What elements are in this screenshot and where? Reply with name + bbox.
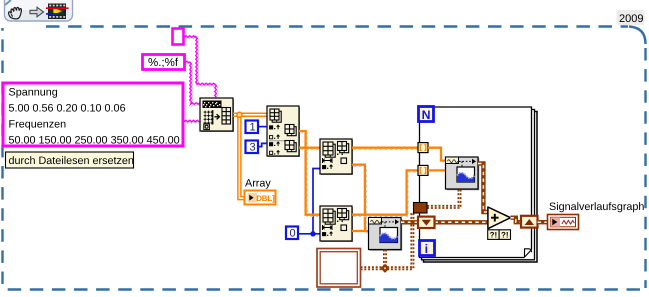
waveform wire: shift register to Add [435, 220, 488, 224]
string wire: format to node [187, 63, 200, 106]
shift register left terminal (down arrow) [418, 217, 435, 228]
solid border tunnel [414, 203, 428, 214]
loop iteration terminal i [420, 241, 435, 257]
for loop count terminal N [419, 107, 434, 122]
svg-text:1: 1 [250, 122, 256, 134]
svg-text:3: 3 [250, 142, 256, 154]
svg-text:50.00 150.00 250.00 350.00 450: 50.00 150.00 250.00 350.00 450.00 [9, 135, 180, 147]
waveform graph indicator [548, 215, 579, 230]
svg-text:N: N [422, 108, 431, 122]
1D wire stub: subset2 out2 [352, 230, 365, 232]
1D wire: subset2 out1 to loop tunnel T2 [354, 172, 420, 216]
svg-text:5.00 0.56 0.20 0.10 0.06: 5.00 0.56 0.20 0.10 0.06 [9, 103, 126, 115]
svg-text:Array: Array [245, 178, 271, 190]
numeric constant 0 [286, 227, 298, 240]
1D wire: subset1 out2 to express VI 2 input [354, 167, 371, 233]
wire 0 to subset index inputs [298, 233, 320, 235]
svg-text:Spannung: Spannung [9, 87, 58, 99]
1D wire: index out1 to subset2 [301, 133, 322, 217]
LabVIEW run/vi film icon [46, 4, 69, 20]
for loop frame (stacked) outer line 3 [424, 112, 538, 263]
express VI: Sine Waveform (outside loop) [369, 218, 403, 251]
1D wire: subset1 out1 to loop tunnel T1 [354, 149, 420, 151]
tunnel T1 (auto-indexing) [418, 143, 428, 153]
wire junction [237, 112, 242, 117]
format string constant %.;%f [143, 55, 185, 70]
1D wire: index out2 to subset1 [301, 149, 322, 151]
empty waveform array constant [317, 249, 361, 288]
svg-text:Signalverlaufsgraph: Signalverlaufsgraph [549, 201, 644, 213]
empty string constant (delimiter) [173, 29, 184, 45]
string wire: delimiter to node top [186, 37, 218, 97]
floating tools palette [5, 0, 73, 21]
blue wire junction dot [310, 231, 315, 236]
LabVIEW version tag 2009 [617, 10, 645, 25]
shift register right terminal / output tunnel (up arrow) [521, 216, 538, 228]
numeric constant 1 [246, 121, 259, 134]
svg-text:?!: ?! [501, 231, 509, 240]
Add function [488, 207, 511, 229]
express VI: Sine Waveform (inside loop) [446, 157, 480, 190]
svg-text:0: 0 [290, 228, 296, 240]
svg-text:durch Dateilesen ersetzen: durch Dateilesen ersetzen [9, 155, 134, 167]
2D array wire: node output to junction [233, 112, 267, 114]
svg-text:Frequenzen: Frequenzen [9, 119, 67, 131]
waveform wire: express VI 2 out to shift register [401, 220, 418, 224]
wire 3 to index [258, 143, 267, 146]
for loop main frame with folded corner [420, 107, 532, 258]
arrow tool icon [30, 7, 44, 17]
tunnel T2 (auto-indexing) [418, 165, 428, 175]
waveform wire: express VI 1 out to Add [478, 164, 488, 213]
wire junction diamond [380, 264, 389, 273]
array constant [DBL] [245, 191, 276, 205]
Spreadsheet String To Array node [200, 98, 234, 132]
1D wire: T2 to express VI 1 [428, 169, 446, 171]
waveform wire: tunnel to graph indicator [538, 220, 548, 224]
1D wire: T1 to express VI 1 [428, 148, 446, 161]
pan hand tool icon [9, 7, 22, 19]
error wire: express VI 1 bottom to border tunnel [427, 190, 461, 209]
Index Array node [267, 106, 300, 157]
waveform wire: Add to output tunnel [511, 218, 522, 223]
for loop frame line 2 [422, 110, 535, 260]
svg-text:2009: 2009 [619, 13, 643, 25]
string wire: data to node [184, 122, 199, 124]
probe markers ?! ?! [488, 230, 511, 240]
error wire: express VI 2 bottom / empty array / border tunnel [385, 250, 387, 269]
Array Subset node 2 [320, 206, 353, 242]
svg-text:%.;%f: %.;%f [148, 57, 179, 69]
free label: durch Dateilesen ersetzen [6, 152, 134, 168]
wire 1 to index [258, 126, 267, 128]
2D array wire down to DBL constant [238, 114, 244, 200]
string constant: Spannung / Frequenzen data [3, 83, 183, 147]
svg-text:i: i [425, 242, 428, 256]
Array Subset node 1 [320, 139, 353, 175]
svg-text:?!: ?! [490, 231, 498, 240]
svg-text:DBL]: DBL] [256, 194, 275, 203]
numeric constant 3 [246, 141, 259, 154]
